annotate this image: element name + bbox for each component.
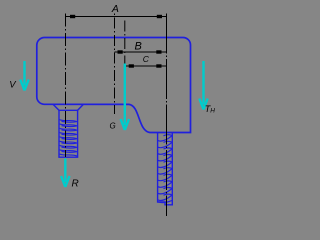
left screw threads <box>60 120 78 156</box>
svg-text:C: C <box>143 54 150 64</box>
force arrow V <box>20 61 28 91</box>
dimension B right arrow <box>156 50 161 53</box>
step centerline (node at B left) <box>114 14 116 115</box>
left screw countersunk head <box>53 104 84 110</box>
left screw centerline <box>65 14 67 158</box>
dimension B line <box>115 51 167 53</box>
force arrow TH <box>199 61 207 110</box>
reaction arrow R <box>61 159 69 188</box>
left screw shank <box>59 110 78 157</box>
dimension A line <box>66 16 167 18</box>
svg-text:G: G <box>110 122 116 131</box>
dimension C line <box>125 65 167 67</box>
right screw shank <box>158 133 173 205</box>
svg-text:R: R <box>72 179 79 190</box>
right screw threads <box>158 135 172 203</box>
dimension A left arrow <box>70 15 75 18</box>
dimension C right arrow <box>156 64 161 67</box>
dimension C left arrow <box>129 64 134 67</box>
dimension A right arrow <box>157 15 162 18</box>
bracket body outline <box>37 38 191 133</box>
right screw centerline <box>166 14 168 217</box>
dimension B left arrow <box>118 50 123 53</box>
svg-text:B: B <box>135 41 142 53</box>
force arrow G <box>121 64 129 131</box>
G load centerline <box>124 19 126 64</box>
svg-text:A: A <box>111 3 119 15</box>
